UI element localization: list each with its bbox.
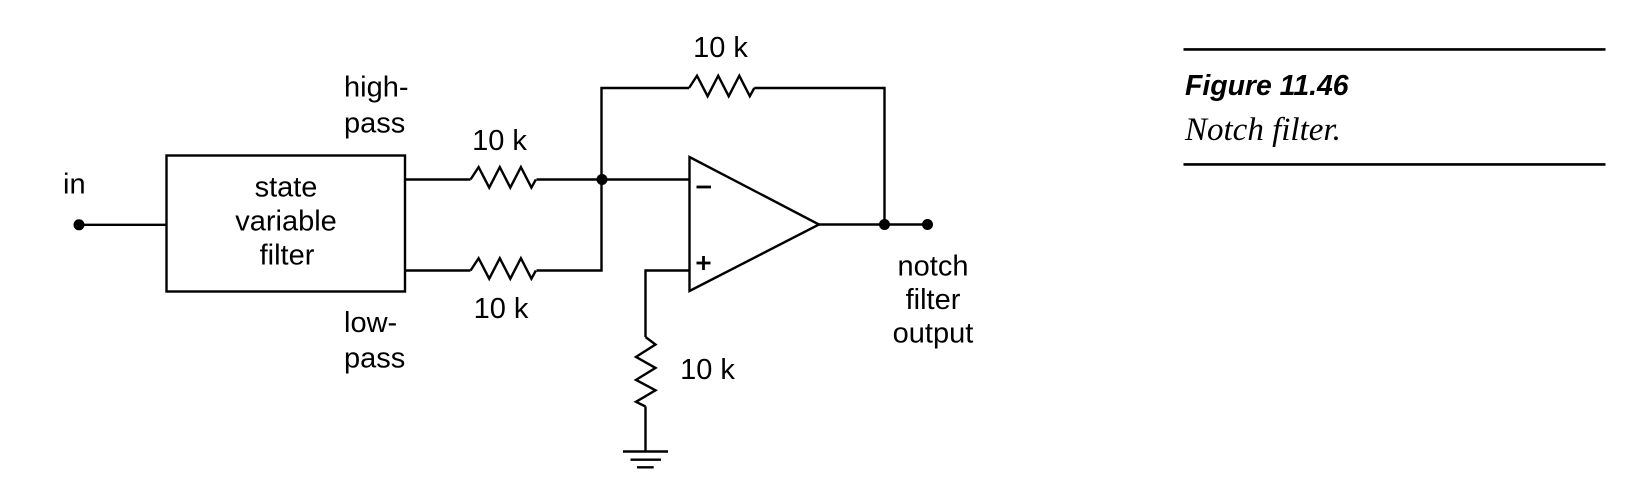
svg-text:pass: pass: [344, 107, 405, 139]
svg-text:10 k: 10 k: [472, 125, 527, 157]
svg-text:Figure 11.46: Figure 11.46: [1185, 70, 1349, 102]
wire: R3 right and down to output node: [754, 88, 884, 225]
op-amp non-inverting input marker (plus): [697, 256, 711, 270]
node: input terminal dot: [74, 219, 85, 230]
wire: R1 to op-amp inverting input: [537, 178, 690, 180]
svg-text:notch: notch: [898, 251, 969, 283]
wire: low-pass output to resistor R2: [405, 269, 471, 271]
label: state variable filter: [235, 172, 337, 272]
node: output terminal dot: [922, 219, 933, 230]
wire: node A up and right to feedback resistor R3: [602, 88, 690, 180]
ground symbol: [623, 452, 668, 468]
label "low-pass": [344, 307, 405, 374]
svg-text:in: in: [63, 169, 86, 201]
junction node A (summing node dot): [597, 174, 608, 185]
wire: high-pass output to resistor R1: [405, 178, 471, 180]
svg-text:low-: low-: [344, 307, 397, 339]
label "high-pass": [344, 71, 409, 139]
wire: R4 to ground: [644, 407, 646, 452]
resistor R4 (10 k, to ground): [636, 337, 656, 407]
wire: R2 right then up to node A: [537, 180, 602, 271]
svg-text:output: output: [893, 318, 974, 350]
label "notch filter output": [893, 251, 974, 350]
wire: op-amp output: [819, 223, 928, 225]
resistor R3 (10 k, feedback): [689, 76, 754, 97]
block U1: state variable filter box: [167, 156, 406, 292]
svg-text:variable: variable: [235, 206, 337, 238]
wire: input terminal to state variable filter box: [79, 224, 167, 226]
resistor R2 (10 k, low-pass path): [471, 258, 536, 279]
svg-text:high-: high-: [344, 71, 409, 103]
op-amp U2 triangle: [690, 157, 820, 291]
junction node: feedback/output dot: [879, 219, 890, 230]
svg-text:state: state: [255, 172, 318, 204]
resistor R1 (10 k, high-pass path): [471, 167, 536, 188]
rule above figure caption: [1184, 48, 1606, 51]
svg-text:filter: filter: [260, 239, 315, 271]
svg-text:10 k: 10 k: [474, 293, 529, 325]
svg-text:pass: pass: [344, 342, 405, 374]
wire: op-amp non-inverting input stub: [646, 271, 690, 338]
svg-text:filter: filter: [906, 284, 961, 316]
svg-text:10 k: 10 k: [693, 32, 748, 64]
rule below figure caption: [1184, 163, 1606, 166]
svg-text:Notch filter.: Notch filter.: [1184, 112, 1341, 148]
op-amp inverting input marker (minus): [697, 186, 712, 189]
svg-text:10 k: 10 k: [680, 354, 735, 386]
